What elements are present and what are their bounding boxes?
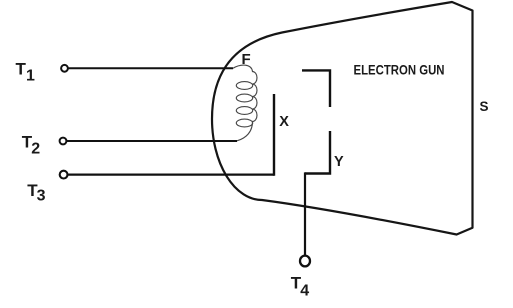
svg-text:F: F — [242, 51, 251, 68]
svg-text:ELECTRON GUN: ELECTRON GUN — [354, 62, 445, 77]
filament coil F — [233, 65, 257, 141]
svg-text:3: 3 — [37, 187, 46, 204]
Y plate bottom electrode — [305, 131, 330, 174]
Y plate top electrode — [302, 70, 330, 107]
svg-text:S: S — [480, 99, 489, 114]
wire Y plate to terminal T4 — [304, 172, 306, 256]
svg-text:T: T — [16, 59, 27, 78]
svg-text:Y: Y — [334, 154, 344, 170]
wire T3 to X plate — [68, 174, 275, 176]
terminal T2 — [22, 133, 67, 158]
terminal T1 — [16, 59, 68, 84]
X deflection plate — [273, 94, 275, 176]
svg-text:1: 1 — [26, 68, 35, 85]
CRT tube envelope — [212, 2, 473, 235]
terminal T4 — [291, 256, 310, 300]
svg-text:4: 4 — [300, 282, 309, 299]
wire T2 to filament — [66, 140, 237, 142]
svg-text:2: 2 — [31, 141, 40, 158]
terminal T3 — [27, 171, 67, 205]
wire T1 to filament — [68, 67, 233, 69]
svg-text:X: X — [279, 114, 289, 130]
